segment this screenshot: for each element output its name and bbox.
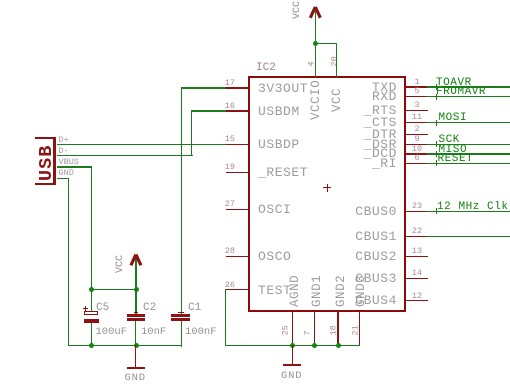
label origin cross MOSI <box>434 122 440 123</box>
pin number 22 <box>410 227 424 236</box>
pin name CBUS0 <box>349 205 397 218</box>
capacitor C2 top plate <box>127 314 145 317</box>
net label FROMAVR <box>436 87 486 98</box>
pin number 28 <box>221 247 235 256</box>
pin 21 GND3 stub (bottom) <box>359 312 360 346</box>
pin 2 _DTR stub <box>406 134 428 135</box>
capacitor C5 top plate (outline) <box>84 311 99 315</box>
pin number 11 <box>410 113 424 122</box>
pin 10 _DCD stub <box>406 153 428 154</box>
pin name CBUS1 <box>349 230 397 243</box>
label origin cross RESET <box>434 163 440 164</box>
IC name label IC2 <box>256 62 276 74</box>
pin 11 _CTS stub <box>406 122 428 123</box>
pin number 17 <box>221 79 235 88</box>
pin number 5 <box>410 87 424 96</box>
supply VCC (top) name (rotated) <box>293 1 303 19</box>
wire net 12MHzClk (pin 23 to right edge) <box>427 211 510 212</box>
wire C5 stem upper <box>91 289 92 312</box>
wire C2 stem lower <box>135 321 136 346</box>
wire USB GND horizontal <box>57 178 70 179</box>
pin name CBUS3 <box>349 272 397 285</box>
supply VCC (left) name (rotated) <box>116 255 126 273</box>
pin name _CTS <box>349 116 397 129</box>
pin number 12 <box>410 292 424 301</box>
supply VCC (left) arrow <box>125 250 147 268</box>
pin 28 OSCO stub <box>226 256 249 257</box>
junction dot VBUS rail right <box>134 287 139 292</box>
pin number 18 (rotated) <box>329 325 338 335</box>
capacitor C1 bottom plate <box>171 318 190 321</box>
pin 23 CBUS0 stub <box>406 211 428 212</box>
pin number 19 <box>221 163 235 172</box>
pin name _RESET <box>258 166 308 179</box>
pin 9 _DSR stub <box>406 144 428 145</box>
pin name VCC (rotated) <box>331 88 344 112</box>
wire bottom ground rail (left) <box>68 345 183 346</box>
USB bracket bottom tab <box>35 183 57 186</box>
pin number 3 <box>410 101 424 110</box>
pin number 15 <box>221 135 235 144</box>
capacitor C2 stem tick <box>134 312 139 313</box>
pin number 23 <box>410 202 424 211</box>
pin 25 AGND stub (bottom) <box>292 312 293 346</box>
pin 3 _RTS stub <box>406 110 428 111</box>
pin name TEST <box>258 284 291 297</box>
pin name RXD <box>349 90 397 103</box>
wire net TOAVR (pin 1 to right edge) <box>427 86 510 87</box>
wire D+ from USB to pin 15 <box>57 144 226 145</box>
pin number 20 (rotated) <box>330 56 339 66</box>
label origin cross 12MHzClk <box>434 211 440 212</box>
pin 14 CBUS3 stub <box>406 278 428 279</box>
wire net MISO (pin 10 to right edge) <box>427 153 510 154</box>
net label 12 MHz Clk <box>437 202 509 213</box>
capacitor C5 plus mark <box>83 308 88 309</box>
wire TEST vertical down <box>225 289 226 346</box>
wire VCC stem to C2 <box>135 257 136 314</box>
wire VCC top to pin 4 <box>315 44 316 77</box>
pin number 27 <box>221 200 235 209</box>
capacitor C5 bottom plate <box>84 319 100 323</box>
ground GND (right) stem <box>292 345 293 364</box>
label origin cross MISO <box>434 154 440 155</box>
pin name _DSR <box>349 138 397 151</box>
capacitor C2 name <box>143 302 156 314</box>
wire VCC top branch down to pin 20 <box>336 43 337 77</box>
connector X1 USB bracket <box>53 137 56 186</box>
pin name CBUS4 <box>349 294 397 307</box>
net label MOSI <box>439 113 468 124</box>
wire net RESET (pin 6 to right edge) <box>427 163 510 164</box>
USB pad label D+ <box>59 136 69 145</box>
pin number 16 <box>221 102 235 111</box>
pin 4 VCCIO stub (top) <box>315 62 316 76</box>
pin name _RTS <box>349 104 397 117</box>
ground GND (left) bar <box>127 367 145 369</box>
pin name GND2 (rotated) <box>335 275 348 307</box>
pin name USBDP <box>258 138 300 151</box>
pin name CBUS2 <box>349 250 397 263</box>
wire C1 bottom to ground rail <box>181 321 182 347</box>
wire D- vertical riser <box>191 110 192 156</box>
ground GND (right) name <box>281 370 302 382</box>
pin 12 CBUS4 stub <box>406 300 428 301</box>
pin 13 CBUS2 stub <box>406 256 428 257</box>
junction dot GND1 <box>312 343 317 348</box>
capacitor C2 value 10nF <box>141 326 166 338</box>
capacitor C1 name <box>188 302 201 314</box>
pin number 6 <box>410 154 424 163</box>
pin 15 USBDP stub <box>226 144 249 145</box>
pin 22 CBUS1 stub <box>406 236 428 237</box>
pin number 1 <box>410 78 424 87</box>
junction dot ground rail at C2 <box>134 343 139 348</box>
pin name OSCO <box>258 250 291 263</box>
USB bracket top tab <box>35 137 57 140</box>
wire 3V3OUT horizontal (pin 17) <box>181 87 226 88</box>
USB pad label VBUS <box>59 158 79 167</box>
pin number 10 <box>410 145 424 154</box>
pin 17 3V3OUT stub <box>226 87 249 88</box>
pin 1 TXD stub <box>406 86 428 87</box>
wire USB GND vertical down <box>68 178 69 346</box>
USB pad label GND <box>59 169 74 178</box>
pin number 25 (rotated) <box>281 325 290 335</box>
capacitor C5 name <box>96 302 109 314</box>
label origin cross TOAVR <box>434 87 440 88</box>
supply VCC (top) arrow <box>305 2 327 20</box>
wire D- to pin 16 <box>191 110 226 111</box>
wire D- horizontal from USB <box>57 155 193 156</box>
pin 7 GND1 stub (bottom) <box>314 312 315 346</box>
pin name GND3 (rotated) <box>355 275 368 307</box>
wire 3V3OUT vertical down to C1 <box>181 87 182 314</box>
wire VCC top branch horizontal <box>315 43 338 44</box>
pin number 7 (rotated) <box>304 330 313 335</box>
junction dot GND2 <box>336 343 341 348</box>
net label TOAVR <box>436 78 472 89</box>
capacitor C1 value 100nF <box>185 326 217 338</box>
wire VBUS/VCC horizontal rail <box>91 289 137 290</box>
capacitor C1 top plate <box>171 314 190 317</box>
pin name GND1 (rotated) <box>311 275 324 307</box>
capacitor C2 bottom plate <box>127 318 145 321</box>
pin number 9 <box>410 135 424 144</box>
wire net SCK (pin 9 to right edge) <box>427 144 510 145</box>
net label SCK <box>439 135 460 146</box>
pin 19 _RESET stub <box>226 172 249 173</box>
capacitor C1 stem tick <box>178 312 184 313</box>
pin number 21 (rotated) <box>351 325 360 335</box>
wire net MOSI (pin 11 to right edge) <box>427 122 510 123</box>
pin 26 TEST stub <box>226 289 249 290</box>
ground GND (left) stem <box>135 345 136 367</box>
capacitor C5 value 100uF <box>96 326 128 338</box>
pin number 14 <box>410 269 424 278</box>
label origin cross FROMAVR <box>434 96 440 97</box>
pin 20 VCC stub (top) <box>336 62 337 76</box>
USB pad label D- <box>59 147 69 156</box>
pin name _DTR <box>349 128 397 141</box>
pin number 26 <box>221 281 235 290</box>
op-amp/IC U1 IC2 box outline <box>248 76 406 312</box>
pin 27 OSCI stub <box>226 209 249 210</box>
pin 5 RXD stub <box>406 96 428 97</box>
pin name AGND (rotated) <box>289 275 302 307</box>
pin name _DCD <box>349 147 397 160</box>
net label RESET <box>438 154 474 165</box>
pin name 3V3OUT <box>258 82 308 95</box>
junction dot VCC top <box>313 41 318 46</box>
wire VBUS vertical down <box>91 166 92 289</box>
net label MISO <box>439 145 468 156</box>
wire bottom ground rail (right) <box>225 345 360 346</box>
wire VBUS horizontal from USB <box>57 166 93 167</box>
wire net CBUS1 (pin 22 to right edge) <box>427 236 510 237</box>
pin name OSCI <box>258 203 291 216</box>
pin name USBDM <box>258 105 300 118</box>
junction dot VBUS rail left <box>89 287 94 292</box>
wire VCC top stem <box>315 10 316 45</box>
pin name VCCIO (rotated) <box>310 80 323 120</box>
ground GND (right) bar <box>283 364 301 366</box>
pin number 2 <box>410 125 424 134</box>
pin 18 GND2 stub (bottom) <box>337 312 338 346</box>
pin name TXD <box>349 81 397 94</box>
IC origin cross <box>323 187 331 188</box>
junction dot AGND <box>290 343 295 348</box>
label origin cross SCK <box>434 144 440 145</box>
wire C5 stem lower <box>91 323 92 346</box>
pin 6 _RI stub <box>406 163 428 164</box>
pin 16 USBDM stub <box>226 110 249 111</box>
pin number 13 <box>410 247 424 256</box>
pin number 4 (rotated) <box>308 61 317 66</box>
wire net FROMAVR (pin 5 to right edge) <box>427 96 510 97</box>
USB connector name (rotated) <box>37 144 56 180</box>
pin name _RI <box>349 157 397 170</box>
ground GND (left) name <box>125 372 146 384</box>
junction dot ground rail at C5 <box>89 343 94 348</box>
